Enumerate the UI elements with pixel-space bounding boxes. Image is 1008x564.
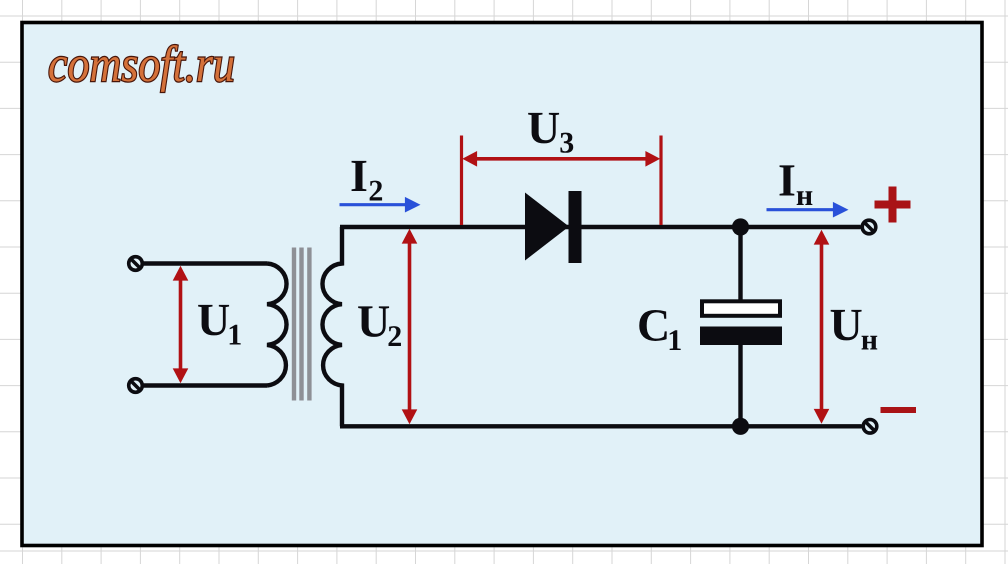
- label U1: [197, 294, 242, 352]
- terminal input bottom-left: [129, 379, 143, 393]
- terminal output plus: [862, 220, 876, 234]
- wire primary top: [142, 261, 267, 265]
- label U3: [527, 102, 574, 160]
- transformer T1 secondary winding: [322, 227, 342, 426]
- label I load: [778, 154, 813, 212]
- junction top node: [732, 218, 749, 235]
- arrow U load measure: [814, 230, 830, 424]
- terminal input top-left: [129, 257, 143, 271]
- label C1: [637, 300, 682, 358]
- wire bottom rail: [340, 424, 862, 428]
- wire primary bottom: [142, 383, 267, 387]
- wire top rail: [340, 225, 861, 229]
- watermark comsoft.ru: [48, 37, 235, 93]
- wire capacitor bottom lead: [738, 345, 742, 426]
- arrow U2 measure: [402, 229, 418, 424]
- polarity minus: [881, 407, 917, 413]
- junction bottom node: [732, 418, 749, 435]
- transformer T1 primary winding: [267, 264, 287, 386]
- polarity plus: [875, 187, 911, 223]
- label U2: [357, 296, 402, 354]
- capacitor C1 bottom plate: [700, 327, 782, 346]
- transformer T1 core: [292, 248, 312, 401]
- terminal output minus: [863, 420, 877, 434]
- arrow U1 measure: [173, 266, 189, 383]
- diode VD1: [525, 191, 582, 263]
- wire capacitor top lead: [738, 227, 742, 301]
- svg-text:comsoft.ru: comsoft.ru: [48, 37, 235, 93]
- arrow U3 measure: [462, 136, 662, 226]
- label I2: [350, 150, 383, 208]
- arrow I2 current: [340, 197, 421, 213]
- arrow I load current: [767, 202, 849, 218]
- label U load: [830, 299, 879, 357]
- capacitor C1 top plate: [702, 301, 780, 316]
